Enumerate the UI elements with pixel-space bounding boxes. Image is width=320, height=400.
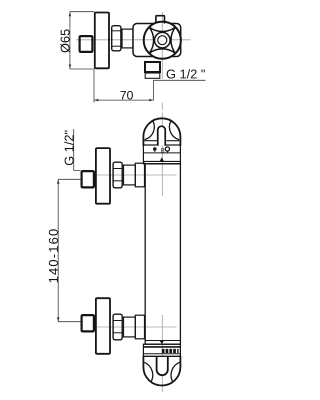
lower inlet centerline	[94, 326, 177, 328]
dim 140-160 arrows	[57, 179, 60, 184]
temperature knob dome (front view)	[143, 118, 180, 146]
lower hex facet lines	[113, 320, 123, 322]
hot icon (filled dot with stem)	[153, 147, 157, 151]
flow index triangle (apex down)	[160, 341, 164, 344]
label 140-160 (rotated)	[49, 229, 58, 282]
vertical centerline upper (front view)	[161, 113, 163, 197]
dim Ø65 extension bottom	[70, 68, 94, 70]
vertical centerline knob (top view)	[161, 12, 163, 79]
top knob shelf left	[144, 140, 157, 142]
outlet square G1/2 (top view)	[145, 62, 160, 72]
valve body (top view)	[133, 24, 181, 57]
upper wall escutcheon	[96, 148, 110, 204]
bottom knob left leaf	[144, 362, 152, 381]
flow knob band	[143, 344, 180, 356]
lower hex nut	[113, 314, 122, 340]
hex nut facet lines (top view)	[111, 30, 122, 32]
flow band thick line	[143, 346, 180, 348]
lower eccentric union square G1/2	[82, 315, 94, 331]
lower connector to body	[135, 315, 144, 339]
top band mid line	[143, 152, 180, 154]
projection centerline between views	[161, 103, 163, 110]
bottom knob slot	[157, 356, 168, 375]
flow band top line	[143, 355, 180, 357]
top knob right leaf	[169, 121, 179, 140]
top knob slot	[158, 126, 166, 146]
dim 70 arrows	[94, 99, 98, 102]
label G 1/2 (front view, rotated)	[64, 130, 73, 165]
label 70	[120, 91, 132, 100]
outlet stub (top view)	[145, 73, 160, 78]
knob grip arc S (top view)	[149, 49, 175, 53]
lower connector cylinder	[124, 317, 136, 337]
temperature knob circle (top view)	[144, 22, 181, 59]
knob grip arc W (top view)	[149, 27, 153, 53]
knob inner ring (top view)	[155, 32, 171, 48]
body bottom edge line	[145, 340, 181, 342]
38C index triangle (apex up)	[160, 157, 164, 161]
upper inlet centerline	[94, 174, 177, 176]
mixer body column (front view)	[145, 164, 180, 344]
dim Ø65 arrows	[69, 12, 72, 17]
upper connector to body	[135, 163, 144, 187]
top knob shelf right	[166, 140, 179, 142]
upper hex nut	[113, 162, 122, 188]
label G 1/2 " (top view)	[167, 69, 205, 78]
dim 140-160 line	[57, 179, 59, 321]
axis centerline (top view)	[76, 39, 191, 41]
dim 70 line	[94, 99, 154, 101]
flow band lower line	[143, 353, 180, 355]
knob grip arc N (top view)	[149, 27, 175, 31]
upper hex facet lines	[113, 168, 123, 170]
leader G1/2 outlet (top view)	[154, 80, 206, 100]
leader G1/2 (front view)	[74, 129, 81, 170]
lower wall escutcheon	[96, 298, 110, 354]
dim Ø65 line	[69, 12, 71, 69]
hex nut (top view)	[112, 26, 121, 51]
label Ø65	[60, 29, 69, 52]
flow knob dome (front view)	[143, 356, 180, 386]
button tab on knob (top view)	[156, 16, 165, 24]
bottom knob right leaf	[171, 362, 179, 381]
dim Ø65 extension top	[70, 11, 94, 13]
connector cylinder (top view)	[122, 29, 133, 48]
body shoulder line	[145, 163, 181, 165]
dim 140-160 stub bottom	[58, 321, 80, 323]
top band bottom line	[143, 160, 180, 162]
white fill pass (part bodies)	[80, 13, 181, 386]
cold icon (open circle with stem)	[165, 147, 169, 151]
vertical centerline lower (front view)	[161, 315, 163, 392]
knob grip arc E (top view)	[171, 27, 175, 53]
eccentric union square G1/2 (top view)	[80, 36, 93, 52]
flow rate black squares	[162, 349, 165, 353]
38 marking	[161, 148, 164, 153]
top knob band	[143, 145, 180, 164]
dim 140-160 stub top	[58, 178, 80, 180]
upper eccentric union square G1/2	[82, 171, 94, 187]
top knob left leaf	[145, 121, 155, 140]
knob hub circle (top view)	[158, 36, 167, 45]
upper connector cylinder	[124, 165, 136, 185]
wall escutcheon Ø65 (top view)	[95, 13, 109, 69]
dim 70 extension left	[93, 70, 95, 103]
